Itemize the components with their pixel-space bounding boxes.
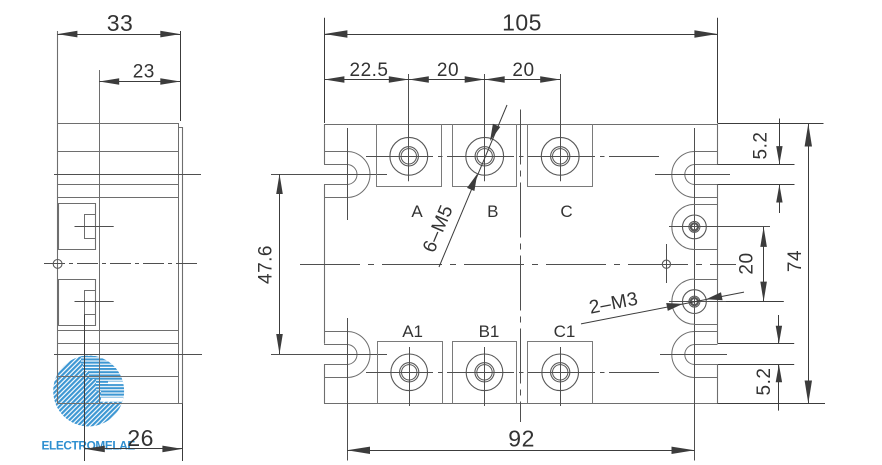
side view lower boss inner step <box>85 291 96 315</box>
side view base plate outer edge <box>182 127 184 404</box>
slot centerline bottom-left horizontal <box>271 354 387 356</box>
slot centerline top-right horizontal <box>655 174 730 176</box>
dim 74 extension bottom <box>718 403 826 405</box>
leader 2-M3 arrow right <box>706 292 723 300</box>
side view slot centerline top <box>54 174 201 176</box>
body left edge <box>324 124 326 164</box>
dim 26 line <box>85 448 183 450</box>
dim 26 extension left <box>84 314 86 461</box>
dim 47.6 line <box>279 174 281 354</box>
side view lower control boss <box>59 280 96 326</box>
dim 105 line <box>324 34 717 36</box>
dim 5.2 bottom line lower <box>778 364 780 410</box>
leader 2-M3 arrow left <box>666 303 683 311</box>
svg-text:20: 20 <box>512 60 534 81</box>
dim 74 extension top <box>718 123 824 125</box>
side view upper control boss <box>59 204 96 250</box>
terminal block C <box>528 124 593 187</box>
side view cover step line <box>99 70 101 404</box>
right column centerline vertical / dim 92 extension right <box>694 128 696 461</box>
leader 2-M3 line <box>581 292 744 324</box>
dim 5.2 bottom extension lower <box>718 364 794 366</box>
side view slot line y377 <box>57 376 178 378</box>
terminal block B <box>453 124 517 187</box>
side view slot centerline bottom <box>54 354 202 356</box>
side view locating pin circle <box>53 260 62 269</box>
side view slot line y343 <box>57 343 178 345</box>
side view slot line y330 <box>57 330 178 332</box>
dim 23 line <box>99 81 180 83</box>
svg-text:5.2: 5.2 <box>754 368 775 396</box>
terminal C1 washer and screw <box>542 354 579 391</box>
dim 5.2 bottom line upper <box>778 315 780 344</box>
dim 26 extension right <box>182 404 184 462</box>
mounting slot bottom-right <box>695 331 718 333</box>
side view left edge <box>57 31 59 404</box>
svg-text:92: 92 <box>508 426 535 452</box>
lower M3 horizontal centerline <box>669 301 726 303</box>
side view bottom edge <box>57 403 182 405</box>
svg-text:23: 23 <box>133 62 155 83</box>
side view slot line y184 <box>57 184 178 186</box>
body horizontal centerline <box>300 264 736 266</box>
terminal block A <box>377 124 442 187</box>
side view horizontal centerline <box>44 263 201 265</box>
control terminal boss upper (M3) <box>694 204 717 206</box>
dim 74 line <box>808 124 810 404</box>
body top edge <box>324 124 718 126</box>
slot centerline top-left vertical <box>347 128 349 220</box>
svg-text:C1: C1 <box>554 322 576 341</box>
dim 20 right lower extension <box>726 301 784 303</box>
terminal B1 washer and screw <box>466 354 503 391</box>
terminal A washer and screw <box>390 137 428 175</box>
svg-text:26: 26 <box>127 425 154 451</box>
dim 105 extension right <box>717 18 719 123</box>
side view base plate inner face <box>178 127 180 404</box>
dim 20 right line <box>763 227 765 302</box>
control terminal boss lower (M3) <box>694 279 717 281</box>
terminal block C1 <box>528 342 593 404</box>
small hole vertical centerline <box>666 244 668 283</box>
dim extension terminal B / centerline <box>484 74 486 181</box>
dim 33 line <box>57 34 180 36</box>
side view top-right step <box>178 123 180 127</box>
dim 5.2 bottom extension upper <box>718 343 794 345</box>
dim 5.2 top line upper <box>779 119 781 165</box>
body bottom edge <box>324 403 718 405</box>
side view slot line y151 <box>57 151 178 153</box>
dim extension terminal A / centerline <box>408 74 410 181</box>
svg-text:20: 20 <box>437 60 459 81</box>
leader 6-M5 line <box>439 105 507 267</box>
slot centerline top-left horizontal <box>271 174 387 176</box>
top row horizontal centerline <box>366 156 659 158</box>
svg-text:A1: A1 <box>402 322 423 341</box>
svg-text:A: A <box>411 202 423 221</box>
svg-text:47.6: 47.6 <box>256 245 277 284</box>
svg-text:20: 20 <box>737 252 758 274</box>
svg-text:ELECTROMELAE: ELECTROMELAE <box>42 439 136 453</box>
svg-text:22.5: 22.5 <box>350 60 389 81</box>
terminal C washer and screw <box>541 137 579 175</box>
terminal A1 washer and screw <box>391 354 428 391</box>
slot centerline bottom-left vertical / dim 92 extension left <box>347 318 349 461</box>
leader 6-M5 arrow upper <box>490 124 500 141</box>
svg-text:105: 105 <box>502 10 542 36</box>
side view lower boss axis <box>75 301 114 303</box>
dim 5.2 top line lower <box>779 185 781 214</box>
terminal block B1 <box>453 342 517 404</box>
svg-text:33: 33 <box>107 10 134 36</box>
dim extension terminal C / centerline <box>560 74 562 181</box>
side view upper boss axis <box>75 226 114 228</box>
mounting slot bottom-left <box>324 331 347 333</box>
slot centerline bottom-right horizontal <box>660 354 727 356</box>
dim 105 extension left <box>324 18 326 123</box>
small locating hole <box>662 260 670 268</box>
bottom terminal vertical centerline C1 <box>560 347 562 406</box>
body vertical centerline <box>520 110 522 423</box>
svg-text:74: 74 <box>785 250 806 272</box>
terminal B washer and screw <box>466 137 504 175</box>
mounting slot top-right <box>695 151 718 153</box>
dim 5.2 top extension lower <box>718 184 795 186</box>
upper M3 horizontal centerline / dim 20 extension <box>669 226 770 228</box>
dim 22.5/20/20 line <box>324 79 560 81</box>
side view slot line y197 <box>57 197 178 199</box>
side view top edge <box>57 123 178 125</box>
mounting slot top-left <box>324 151 347 153</box>
dim 5.2 top extension upper <box>718 164 795 166</box>
terminal block A1 <box>378 342 443 404</box>
dim 92 line <box>347 450 695 452</box>
svg-text:B1: B1 <box>479 322 500 341</box>
bottom terminal vertical centerline B1 <box>484 347 486 406</box>
svg-text:5.2: 5.2 <box>751 132 772 160</box>
bottom row horizontal centerline <box>366 372 659 374</box>
dim 33 extension right <box>180 31 182 121</box>
leader 6-M5 arrow lower <box>467 174 477 191</box>
body right edge <box>717 124 719 164</box>
svg-text:B: B <box>487 202 498 221</box>
svg-text:C: C <box>560 202 572 221</box>
bottom terminal vertical centerline A1 <box>409 347 411 406</box>
side view upper boss inner step <box>85 215 96 239</box>
